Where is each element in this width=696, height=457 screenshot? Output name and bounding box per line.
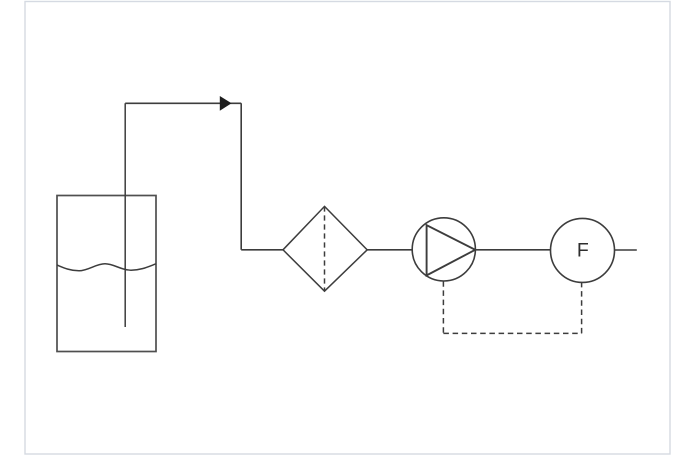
pipe filter to pump wire <box>367 249 412 251</box>
flow meter F circle <box>551 218 615 282</box>
pump impeller triangle <box>427 225 476 275</box>
svg-text:F: F <box>577 240 589 262</box>
tank <box>57 196 156 352</box>
filter (diamond) <box>283 206 367 291</box>
down pipe wire <box>240 103 242 250</box>
pump circle <box>412 218 475 281</box>
signal line horizontal dashed wire <box>443 332 581 334</box>
pipe pump to flow meter wire <box>475 249 550 251</box>
flow arrow <box>220 97 230 110</box>
dip tube wire <box>124 103 126 327</box>
signal line pump down dashed wire <box>442 281 444 333</box>
pipe to filter wire <box>241 249 283 251</box>
outlet pipe wire <box>615 249 637 251</box>
top pipe wire <box>125 102 241 104</box>
signal line flow meter up dashed wire <box>581 283 583 334</box>
filter element dashed line <box>324 206 326 291</box>
liquid level wave <box>57 264 156 271</box>
